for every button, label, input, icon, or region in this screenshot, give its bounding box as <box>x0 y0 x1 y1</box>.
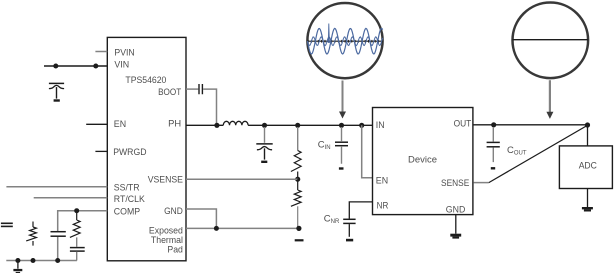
IC U2 Device (LDO, pins IN EN NR OUT SENSE GND) <box>373 108 473 215</box>
scope annotation: ripple waveform circle at switcher output <box>307 3 382 78</box>
capacitor C3 comp <box>51 232 66 237</box>
capacitor C5 bootstrap (BOOT to PH) <box>186 84 217 125</box>
ground ADC <box>582 189 593 212</box>
ground under CIN <box>339 167 344 169</box>
ground under C1 <box>54 99 60 101</box>
svg-text:TPS54620: TPS54620 <box>125 75 166 85</box>
node PH-boot junction <box>214 123 219 128</box>
ground left rail <box>13 261 22 274</box>
svg-text:Pad: Pad <box>167 244 183 254</box>
ground device GND <box>450 215 461 239</box>
node divider ground <box>296 226 301 231</box>
node PVIN junction <box>93 64 98 69</box>
inductor L1 <box>223 121 248 125</box>
capacitor C6 output bulk <box>256 127 272 160</box>
wire EN of device <box>362 125 373 178</box>
wire SS/TR <box>6 186 107 188</box>
svg-text:SENSE: SENSE <box>441 178 469 188</box>
svg-text:BOOT: BOOT <box>158 87 181 97</box>
wire VIN input <box>44 65 107 67</box>
svg-text:Exposed: Exposed <box>149 226 183 236</box>
node EN tap <box>359 123 364 128</box>
svg-text:GND: GND <box>446 205 466 215</box>
svg-text:EN: EN <box>114 119 126 129</box>
wire COMP <box>58 211 108 261</box>
svg-text:VSENSE: VSENSE <box>148 175 183 185</box>
svg-text:COMP: COMP <box>114 206 140 216</box>
svg-text:SS/TR: SS/TR <box>114 182 140 192</box>
svg-text:OUT: OUT <box>454 118 472 128</box>
wire PH <box>186 124 373 126</box>
capacitor C1 input bulk <box>49 83 64 98</box>
ground under C6 <box>261 161 267 163</box>
wire sense diagonal <box>489 125 588 182</box>
svg-text:PH: PH <box>168 118 181 128</box>
node COUT tap <box>491 122 496 127</box>
svg-text:GND: GND <box>164 206 183 216</box>
ground under COUT <box>491 167 495 169</box>
capacitor C4 comp series <box>70 237 85 260</box>
capacitor CNR <box>343 219 355 237</box>
node feedback tap <box>295 123 300 128</box>
node VIN junction <box>53 64 58 69</box>
ground under CNR <box>346 239 353 242</box>
svg-text:PVIN: PVIN <box>114 47 134 57</box>
svg-text:NR: NR <box>377 201 389 211</box>
wire ground rail <box>6 260 77 262</box>
svg-text:EN: EN <box>376 176 388 186</box>
resistor R3 RT/CLK <box>26 222 36 246</box>
resistor R2 feedback bottom <box>291 179 301 206</box>
IC U3 ADC <box>559 146 612 189</box>
wire PWRGD stub <box>95 150 107 152</box>
svg-text:RT/CLK: RT/CLK <box>114 194 146 204</box>
wire to ADC <box>587 125 589 146</box>
wire VSENSE <box>186 178 298 180</box>
capacitor CIN <box>335 127 348 164</box>
node Vout tap <box>262 123 267 128</box>
wire OUT <box>473 124 588 126</box>
node pad junction <box>214 226 219 231</box>
svg-text:VIN: VIN <box>114 60 129 70</box>
wire NR <box>349 202 372 219</box>
wire SENSE stub <box>473 182 488 184</box>
wire exposed pad <box>186 227 299 229</box>
wire PVIN stub <box>95 51 107 53</box>
capacitor C2 left edge <box>1 223 13 226</box>
arrow from scope 2 <box>546 80 553 119</box>
node CIN tap <box>339 123 344 128</box>
wire GND stub <box>186 209 216 228</box>
svg-text:ADC: ADC <box>579 160 597 170</box>
svg-text:PWRGD: PWRGD <box>113 147 147 157</box>
node COMP junction <box>74 208 79 213</box>
arrow from scope 1 <box>339 81 346 119</box>
resistor R4 comp <box>70 212 80 237</box>
wire RT/CLK <box>34 197 108 199</box>
node rail junctions <box>15 258 20 263</box>
svg-text:IN: IN <box>376 120 385 130</box>
node OUT end <box>585 122 590 127</box>
svg-text:Device: Device <box>408 155 437 165</box>
node VSENSE tap <box>295 177 300 182</box>
capacitor COUT <box>487 127 500 162</box>
IC U1 TPS54620 regulator (pins PVIN VIN EN PWRGD SS/TR RT/CLK COMP BOOT PH VSENSE GND Exposed Thermal Pad) <box>107 37 186 260</box>
ground under divider <box>295 239 304 241</box>
scope annotation: clean DC waveform circle at LDO output <box>513 3 589 79</box>
resistor R1 feedback top <box>297 127 299 151</box>
wire EN stub <box>86 123 107 125</box>
